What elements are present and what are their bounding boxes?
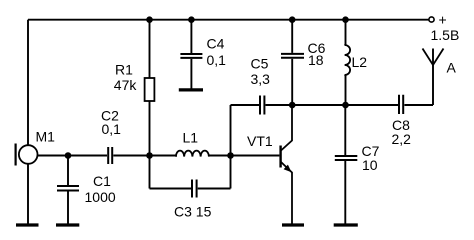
- svg-text:10: 10: [362, 157, 378, 173]
- svg-text:A: A: [447, 60, 457, 76]
- wire mid line left of C5: [231, 104, 260, 106]
- svg-text:R1: R1: [115, 62, 133, 78]
- wire C1 branch lower: [67, 192, 69, 224]
- svg-text:1000: 1000: [85, 189, 116, 205]
- wire C7 branch bottom: [344, 161, 346, 224]
- wire top supply rail: [28, 19, 429, 21]
- wire C6 branch top: [291, 20, 293, 53]
- capacitor C6: [281, 54, 304, 58]
- transistor VT1 emitter lead: [281, 162, 292, 224]
- junction signal line at tank right: [227, 152, 234, 159]
- wire M1 to ground: [27, 164, 29, 224]
- capacitor C4: [180, 54, 202, 58]
- junction signal line at C1: [65, 152, 72, 159]
- wire signal line L1 to VT1 base: [209, 155, 280, 157]
- svg-text:L2: L2: [352, 54, 368, 70]
- junction top rail at C4: [188, 16, 195, 23]
- ground under M1: [16, 223, 39, 226]
- wire C4 branch bottom: [190, 59, 192, 89]
- svg-text:L1: L1: [183, 130, 199, 146]
- junction top rail at R1: [146, 16, 153, 23]
- capacitor C7: [335, 156, 358, 160]
- svg-text:0,1: 0,1: [207, 52, 227, 68]
- junction mid line at C6 collector: [289, 102, 296, 109]
- svg-text:C1: C1: [93, 173, 111, 189]
- ground under VT1 emitter: [282, 223, 304, 226]
- ground under C7: [334, 223, 358, 226]
- wire mid line C5 to C8: [266, 104, 399, 106]
- junction mid line at L2 C7: [342, 102, 349, 109]
- wire signal line C2 to L1: [113, 155, 176, 157]
- battery plus terminal: [429, 17, 434, 22]
- microphone M1: [16, 144, 38, 166]
- svg-text:2,2: 2,2: [392, 131, 412, 147]
- wire C6 branch bottom: [291, 59, 293, 105]
- svg-text:C5: C5: [251, 56, 269, 72]
- svg-text:1.5В: 1.5В: [431, 27, 460, 43]
- svg-text:M1: M1: [36, 129, 56, 145]
- wire left rail to microphone: [27, 20, 29, 146]
- junction top rail at C6: [289, 16, 296, 23]
- svg-text:C4: C4: [207, 36, 225, 52]
- svg-text:C3 15: C3 15: [174, 204, 212, 220]
- wire R1 branch bottom and tank left side: [149, 101, 151, 189]
- ground under C1: [56, 223, 79, 226]
- capacitor C3: [192, 180, 197, 198]
- capacitor C8: [399, 95, 403, 114]
- capacitor C1: [57, 186, 79, 191]
- wire C7 branch top: [344, 105, 346, 155]
- resistor R1: [145, 78, 155, 101]
- svg-text:VT1: VT1: [247, 133, 273, 149]
- wire L2 top lead: [345, 20, 347, 45]
- svg-text:18: 18: [308, 52, 324, 68]
- transistor VT1 collector lead: [281, 105, 292, 151]
- wire C4 branch top: [190, 20, 192, 53]
- capacitor C5: [260, 96, 264, 115]
- svg-text:+: +: [439, 12, 447, 28]
- wire signal line M1 to C2: [38, 155, 107, 157]
- svg-text:0,1: 0,1: [102, 121, 122, 137]
- capacitor C2: [108, 147, 112, 164]
- antenna A: [423, 49, 444, 66]
- wire C5 riser and tank right side: [230, 105, 232, 189]
- wire tank bottom left: [150, 188, 192, 190]
- inductor L2: [345, 45, 351, 76]
- ground under C4: [179, 88, 203, 91]
- junction top rail at L2: [342, 16, 349, 23]
- wire tank bottom right: [198, 188, 231, 190]
- wire C1 branch upper: [67, 156, 69, 186]
- junction signal line at R1 tank left: [146, 152, 153, 159]
- wire L2 bottom lead: [345, 75, 347, 105]
- svg-text:3,3: 3,3: [251, 71, 271, 87]
- svg-text:47k: 47k: [114, 77, 138, 93]
- wire mid line C8 to antenna: [404, 49, 433, 106]
- transistor VT1 emitter arrow: [284, 165, 292, 173]
- inductor L1: [176, 151, 209, 157]
- transistor VT1 base bar: [279, 146, 281, 168]
- wire R1 branch top: [149, 20, 151, 78]
